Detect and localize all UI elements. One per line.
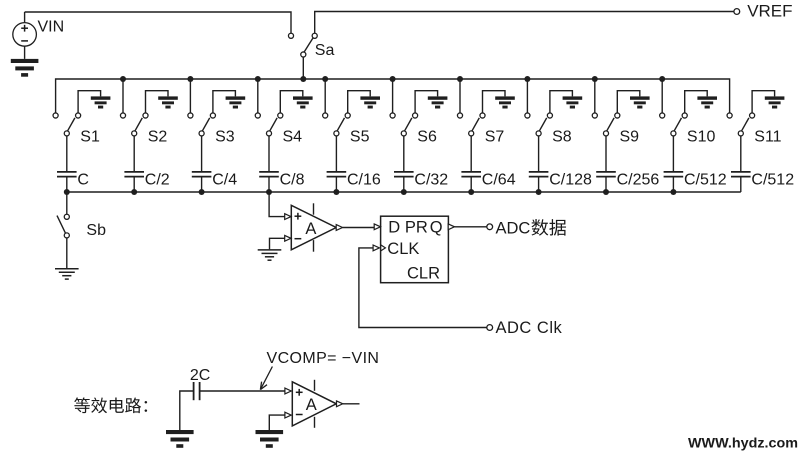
arrow into D [374,224,380,230]
junction Sa on bus [300,76,306,82]
arrow Q output [448,224,454,230]
arrow into - input [285,235,291,241]
switch S7 [457,113,462,118]
svg-text:ADC: ADC [496,220,531,238]
svg-text:VCOMP= −VIN: VCOMP= −VIN [267,350,380,367]
svg-text:S5: S5 [350,129,370,146]
clock mark CLK [381,245,386,251]
ground S11 [765,96,785,108]
wire bus drop to S8 left contact [526,79,528,113]
wire S11 capacitor to bottom bus [740,177,742,192]
wire S4 capacitor to bottom bus [268,177,270,192]
wire VIN rail [25,12,291,34]
svg-text:C: C [77,171,89,188]
svg-text:D: D [388,218,400,236]
junction S9 bottom bus [603,189,609,195]
capacitor C/2 (S2) [124,172,144,177]
wire Sb to ground [66,238,68,269]
ground Sb [55,269,79,279]
wire S3 capacitor to bottom bus [201,177,203,192]
wire S5 ground branch [348,91,371,113]
ground S10 [697,96,717,108]
wire eq output [343,403,360,405]
wire S8 capacitor to bottom bus [538,177,540,192]
op-amp A (equivalent) [292,382,336,426]
wire bus drop to S4 left contact [257,79,259,113]
arrow eq output [337,401,343,407]
switch S5 [323,113,328,118]
svg-text:VREF: VREF [747,1,792,20]
ground S3 [226,96,246,108]
svg-text:2C: 2C [190,367,210,384]
wire bus drop to S9 left contact [594,79,596,113]
wire S6 capacitor to bottom bus [403,177,405,192]
wire S6 pole to capacitor [403,136,405,171]
svg-text:S6: S6 [417,129,437,146]
wire S4 pole to capacitor [268,136,270,171]
wire bus drop to S10 left contact [661,79,663,113]
switch Sa [288,33,293,38]
arrow into eq + input [285,388,291,394]
terminal ADC data [487,224,493,230]
wire S10 capacitor to bottom bus [672,177,674,192]
svg-text:ADC Clk: ADC Clk [496,319,563,337]
capacitor C (S1) [57,172,77,177]
capacitor C/128 (S8) [529,172,549,177]
wire S3 ground branch [213,91,236,113]
wire S5 capacitor to bottom bus [335,177,337,192]
capacitor C/8 (S4) [259,172,279,177]
wire bus drop to S6 left contact [392,79,394,113]
switch S6 [390,113,395,118]
wire S2 capacitor to bottom bus [133,177,135,192]
switch S9 [592,113,597,118]
wire Sa pole to bus [302,57,304,79]
svg-text:C/64: C/64 [482,171,516,188]
svg-text:C/128: C/128 [549,171,592,188]
svg-text:S3: S3 [215,129,235,146]
wire 2C to + input [200,390,285,392]
wire S9 capacitor to bottom bus [605,177,607,192]
terminal ADC Clk [487,325,493,331]
svg-text:S7: S7 [485,129,505,146]
D flip-flop box [381,216,449,283]
svg-text:Sa: Sa [315,42,335,59]
switch S4 [255,113,260,118]
svg-text:Sb: Sb [86,222,106,239]
svg-text:Q: Q [430,218,443,236]
capacitor C/16 (S5) [327,172,347,177]
ground below 2C [166,430,194,448]
eq op-amp - mark [296,414,303,416]
wire S3 pole to capacitor [201,136,203,171]
switch S2 [120,113,125,118]
wire S2 ground branch [146,91,169,113]
junction S8 bottom bus [536,189,542,195]
junction S1 bottom bus [64,189,70,195]
wire bus drop to S3 left contact [189,79,191,113]
wire VREF rail [315,12,734,34]
wire S8 pole to capacitor [538,136,540,171]
svg-text:A: A [306,396,317,414]
svg-text:WWW.hydz.com: WWW.hydz.com [688,434,798,450]
arrow into + input [285,214,291,220]
wire S10 ground branch [685,91,708,113]
capacitor C/512 (S11) [731,172,751,177]
wire S4 ground branch [280,91,303,113]
svg-text:S4: S4 [283,129,303,146]
wire S7 ground branch [483,91,506,113]
capacitor C/32 (S6) [394,172,414,177]
ground S5 [360,96,380,108]
wire S11 ground branch [752,91,775,113]
wire ADC Clk [359,248,487,328]
wire S5 pole to capacitor [335,136,337,171]
svg-text:C/512: C/512 [751,171,794,188]
wire bus to comparator + input [269,192,285,217]
svg-text:C/256: C/256 [617,171,660,188]
switch S3 [188,113,193,118]
wire comparator to flip-flop [343,227,375,229]
wire S11 pole to capacitor [740,136,742,171]
svg-text:S11: S11 [754,129,781,146]
svg-text:S1: S1 [80,129,100,146]
wire comparator - input [270,238,285,249]
voltage source VIN [24,12,26,23]
wire bottom bus [67,191,741,193]
wire bus drop to S5 left contact [324,79,326,113]
capacitor 2C [194,382,200,400]
ground S4 [293,96,313,108]
svg-text:C/4: C/4 [212,171,237,188]
switch S1 [53,113,58,118]
op-amp - mark [295,238,302,240]
svg-text:S2: S2 [148,129,168,146]
wire bus drop to S2 left contact [122,79,124,113]
junction S4 bottom bus [266,189,272,195]
wire S10 pole to capacitor [672,136,674,171]
wire S7 pole to capacitor [470,136,472,171]
svg-text:C/2: C/2 [145,171,170,188]
wire S1 capacitor to bottom bus [66,177,68,192]
wire S1 pole to capacitor [66,136,68,171]
wire S9 ground branch [617,91,640,113]
svg-text:PR: PR [405,218,428,236]
svg-text:C/32: C/32 [414,171,448,188]
svg-text:VIN: VIN [38,18,65,35]
ground comparator - input [258,250,282,260]
switch S10 [660,113,665,118]
ground below VIN [11,59,39,77]
ground S8 [563,96,583,108]
annotation arrow [260,367,272,390]
ground eq - input [256,430,284,448]
wire S7 capacitor to bottom bus [470,177,472,192]
arrow into CLK [373,245,379,251]
junction S10 bottom bus [670,189,676,195]
wire S8 ground branch [550,91,573,113]
wire eq - input [269,415,284,430]
capacitor C/256 (S9) [596,172,616,177]
wire S1 ground branch [78,91,101,113]
wire S6 ground branch [415,91,438,113]
svg-text:C/16: C/16 [347,171,381,188]
wire top bus [56,79,730,113]
capacitor C/64 (S7) [461,172,481,177]
junction S5 bottom bus [333,189,339,195]
junction S6 bottom bus [401,189,407,195]
svg-text:CLK: CLK [387,240,419,258]
svg-text:S9: S9 [620,129,640,146]
junction S3 bottom bus [199,189,205,195]
ground S6 [428,96,448,108]
wire VIN to ground [24,46,26,59]
wire 2C to ground [180,391,194,430]
arrow comparator output [336,225,342,231]
svg-text:A: A [305,220,316,238]
wire S2 pole to capacitor [133,136,135,171]
svg-text:S10: S10 [687,129,716,146]
arrow into eq - input [285,412,291,418]
wire bus to Sb [66,192,68,214]
svg-text:C/512: C/512 [684,171,727,188]
label equivalent circuit [74,397,90,413]
svg-text:C/8: C/8 [280,171,305,188]
capacitor C/4 (S3) [192,172,212,177]
wire bus drop to S7 left contact [459,79,461,113]
switch S11 [727,113,732,118]
ground S1 [91,96,111,108]
op-amp + mark [295,213,302,220]
op-amp A (comparator) [291,205,336,250]
capacitor C/512 (S10) [664,172,684,177]
terminal VREF [734,9,740,15]
svg-text:S8: S8 [552,129,572,146]
wire S9 pole to capacitor [605,136,607,171]
switch S8 [525,113,530,118]
eq op-amp + mark [296,389,303,396]
svg-text:CLR: CLR [407,265,440,283]
ground S9 [630,96,650,108]
switch Sb [64,214,69,219]
ground S2 [158,96,178,108]
ground S7 [495,96,515,108]
junction S2 bottom bus [131,189,137,195]
wire Q to terminal [455,226,487,228]
junction S7 bottom bus [468,189,474,195]
